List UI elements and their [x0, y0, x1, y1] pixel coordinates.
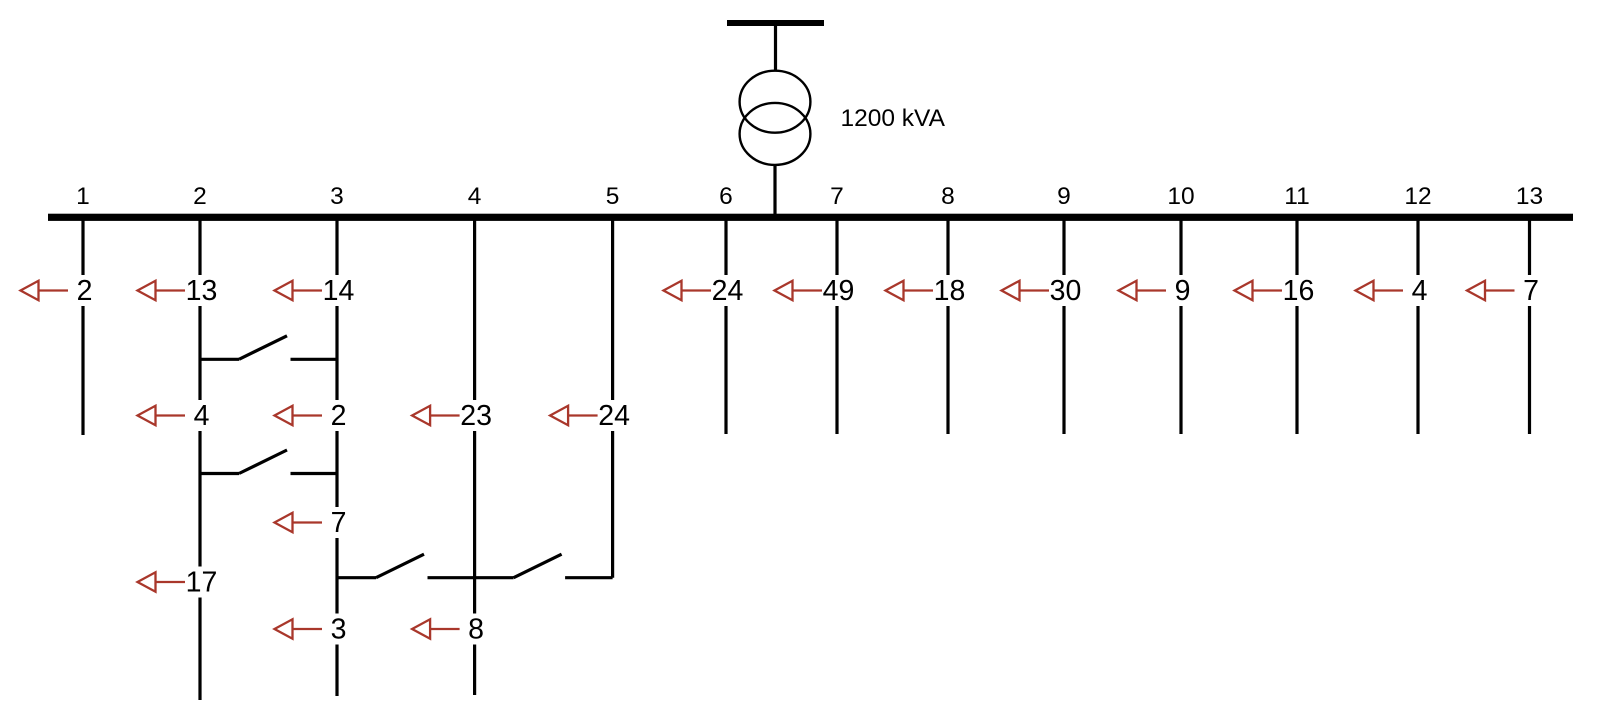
svg-text:4: 4 [1412, 275, 1428, 307]
switch S2 (open disconnect between x=200 and x=337) [200, 450, 337, 474]
load arrow L2-b (tap on feeder, pointing left) [138, 406, 186, 426]
svg-text:12: 12 [1404, 183, 1431, 210]
svg-text:24: 24 [712, 275, 744, 307]
wire: feeder 8 segment 1 [946, 220, 949, 275]
wire: feeder 5 segment 1 [611, 220, 614, 400]
load arrow L3-c (tap on feeder, pointing left) [275, 513, 323, 533]
wire: feeder 7 segment 1 [835, 220, 838, 275]
svg-text:4: 4 [468, 183, 482, 210]
svg-text:7: 7 [331, 507, 347, 539]
wire: feeder 5 segment 2 [611, 431, 614, 578]
load arrow L3-a (tap on feeder, pointing left) [275, 281, 323, 301]
wire: feeder 9 segment 2 [1062, 306, 1065, 434]
wire: feeder 3 segment 2 [335, 306, 338, 400]
wire: feeder 11 segment 1 [1295, 220, 1298, 275]
load arrow L3-d (tap on feeder, pointing left) [275, 619, 323, 639]
svg-text:2: 2 [331, 400, 347, 432]
wire: feeder 11 segment 2 [1295, 306, 1298, 434]
wire: feeder 1 segment 2 [81, 306, 84, 435]
transformer T1 secondary winding [740, 103, 811, 165]
wire: feeder 4 segment 3 [473, 645, 476, 696]
load arrow L6-a (tap on feeder, pointing left) [664, 281, 712, 301]
source bus bar (utility infinite bus) [727, 20, 824, 26]
wire: feeder 13 segment 2 [1528, 306, 1531, 434]
svg-text:3: 3 [330, 183, 344, 210]
wire: feeder 7 segment 2 [835, 306, 838, 434]
switch S4 (open disconnect between x=474.6 and x=612.6) [475, 554, 613, 578]
wire: feeder 8 segment 2 [946, 306, 949, 434]
wire: feeder 10 segment 2 [1179, 306, 1182, 434]
svg-text:9: 9 [1057, 183, 1071, 210]
wire: feeder 12 segment 2 [1416, 306, 1419, 434]
load arrow L1-a (tap on feeder, pointing left) [21, 281, 69, 301]
wire: feeder 2 segment 1 [198, 220, 201, 275]
transformer T1 primary winding [740, 71, 811, 133]
svg-text:18: 18 [934, 275, 966, 307]
svg-text:13: 13 [186, 275, 218, 307]
wire: feeder 6 segment 2 [724, 306, 727, 434]
load arrow L9-a (tap on feeder, pointing left) [1002, 281, 1050, 301]
svg-text:23: 23 [460, 400, 492, 432]
load arrow L7-a (tap on feeder, pointing left) [775, 281, 823, 301]
load arrow L3-b (tap on feeder, pointing left) [275, 406, 323, 426]
svg-text:9: 9 [1175, 275, 1191, 307]
svg-text:14: 14 [323, 275, 355, 307]
load arrow L8-a (tap on feeder, pointing left) [886, 281, 934, 301]
load arrow L4-b (tap on feeder, pointing left) [412, 406, 460, 426]
wire: source bar to transformer primary [774, 26, 777, 72]
wire: feeder 10 segment 1 [1179, 220, 1182, 275]
wire: feeder 3 segment 3 [335, 431, 338, 507]
wire: feeder 12 segment 1 [1416, 220, 1419, 275]
wire: feeder 2 segment 3 [198, 431, 201, 567]
svg-text:2: 2 [193, 183, 207, 210]
svg-text:8: 8 [468, 614, 484, 646]
svg-text:2: 2 [77, 275, 93, 307]
svg-text:8: 8 [941, 183, 955, 210]
load arrow L2-c (tap on feeder, pointing left) [138, 572, 186, 592]
wire: feeder 3 segment 1 [335, 220, 338, 275]
svg-text:11: 11 [1284, 183, 1309, 210]
load arrow L4-d (tap on feeder, pointing left) [412, 619, 460, 639]
load arrow L13-a (tap on feeder, pointing left) [1467, 281, 1515, 301]
wire: feeder 3 segment 4 [335, 538, 338, 614]
wire: feeder 3 segment 5 [335, 645, 338, 697]
svg-text:16: 16 [1283, 275, 1315, 307]
svg-text:6: 6 [719, 183, 733, 210]
wire: feeder 6 segment 1 [724, 220, 727, 275]
wire: feeder 13 segment 1 [1528, 220, 1531, 275]
load arrow L2-a (tap on feeder, pointing left) [138, 281, 186, 301]
wire: feeder 9 segment 1 [1062, 220, 1065, 275]
load arrow L11-a (tap on feeder, pointing left) [1235, 281, 1283, 301]
svg-text:49: 49 [823, 275, 855, 307]
wire: feeder 4 segment 1 [473, 220, 476, 400]
svg-text:17: 17 [186, 567, 218, 599]
load arrow L5-b (tap on feeder, pointing left) [550, 406, 598, 426]
switch S1 (open disconnect between x=200 and x=337) [200, 336, 337, 360]
wire: feeder 4 segment 2 [473, 431, 476, 614]
svg-text:30: 30 [1050, 275, 1082, 307]
svg-text:1200 kVA: 1200 kVA [841, 105, 946, 132]
wire: transformer secondary to main bus [773, 165, 776, 215]
svg-text:13: 13 [1516, 183, 1543, 210]
svg-text:5: 5 [606, 183, 620, 210]
svg-text:1: 1 [76, 183, 90, 210]
switch S3 (open disconnect between x=337 and x=474.6) [337, 554, 475, 578]
load arrow L12-a (tap on feeder, pointing left) [1356, 281, 1404, 301]
wire: feeder 2 segment 4 [198, 598, 201, 701]
main distribution bus [48, 214, 1573, 221]
svg-text:4: 4 [194, 400, 210, 432]
svg-text:3: 3 [331, 614, 347, 646]
svg-text:7: 7 [830, 183, 844, 210]
load arrow L10-a (tap on feeder, pointing left) [1119, 281, 1167, 301]
svg-text:10: 10 [1167, 183, 1194, 210]
svg-text:7: 7 [1523, 275, 1539, 307]
svg-text:24: 24 [598, 400, 630, 432]
wire: feeder 2 segment 2 [198, 306, 201, 400]
wire: feeder 1 segment 1 [81, 220, 84, 275]
